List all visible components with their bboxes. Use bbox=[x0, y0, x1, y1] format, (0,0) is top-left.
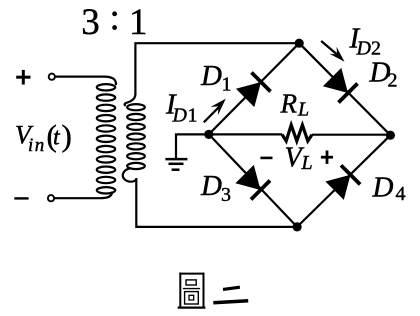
label D2 bbox=[369, 57, 398, 92]
wire - terminal to primary bottom bbox=[54, 192, 112, 199]
current arrow ID1 bbox=[204, 99, 226, 123]
svg-text:2: 2 bbox=[388, 69, 398, 91]
svg-text:3: 3 bbox=[221, 184, 231, 206]
label D1 bbox=[200, 60, 232, 96]
terminal + circle bbox=[49, 74, 55, 80]
label - VL + (load voltage) bbox=[260, 143, 333, 174]
wire secondary top to bridge top node bbox=[135, 43, 299, 95]
wire middle rail left (left node to resistor) bbox=[209, 133, 282, 135]
svg-text:): ) bbox=[62, 118, 72, 153]
wire + terminal to primary top bbox=[55, 77, 116, 85]
node bottom bbox=[293, 222, 302, 231]
caption figure two (Chinese) bbox=[178, 273, 249, 308]
svg-text:1: 1 bbox=[188, 104, 198, 126]
diode D2 (triangle and cathode bar) bbox=[323, 68, 358, 103]
node top bbox=[295, 39, 304, 48]
label + (input positive) bbox=[16, 70, 30, 85]
label D3 bbox=[200, 170, 231, 206]
wire bridge arm D2 (top node to right node) bbox=[299, 43, 390, 135]
resistor RL zigzag bbox=[282, 125, 312, 141]
svg-text:L: L bbox=[301, 152, 313, 174]
label D4 bbox=[372, 171, 406, 205]
svg-text:R: R bbox=[280, 89, 298, 119]
node right bbox=[386, 131, 395, 140]
label ID1 bbox=[165, 89, 198, 127]
wire bridge arm D3 (left node to bottom node) bbox=[209, 134, 297, 227]
svg-text:1: 1 bbox=[222, 74, 232, 96]
svg-text:D: D bbox=[372, 171, 394, 203]
wire left node to ground bbox=[176, 134, 209, 158]
圖 bbox=[178, 273, 206, 308]
label 3:1 turns ratio bbox=[81, 0, 147, 43]
svg-text::: : bbox=[109, 0, 119, 39]
wire secondary bottom to bridge bottom node bbox=[136, 178, 297, 227]
terminal - circle bbox=[48, 195, 54, 201]
svg-text:D: D bbox=[200, 170, 222, 202]
node left bbox=[204, 130, 213, 139]
inductor secondary winding bbox=[123, 94, 145, 182]
svg-text:2: 2 bbox=[371, 38, 381, 60]
label RL bbox=[280, 89, 310, 121]
二 bbox=[213, 287, 248, 303]
wire bridge arm D4 (bottom node to right node) bbox=[297, 135, 390, 227]
svg-text:L: L bbox=[297, 98, 309, 120]
svg-text:D: D bbox=[356, 38, 372, 60]
svg-text:1: 1 bbox=[129, 2, 148, 43]
diode D4 (triangle and cathode bar) bbox=[325, 165, 360, 200]
svg-text:D: D bbox=[172, 104, 188, 126]
wire middle rail right (resistor to right node) bbox=[312, 134, 390, 136]
diode D1 (triangle and cathode bar) bbox=[236, 73, 271, 108]
inductor primary winding bbox=[97, 84, 115, 193]
svg-text:4: 4 bbox=[396, 183, 406, 205]
label Vin(t) bbox=[15, 118, 72, 156]
label - (input negative) bbox=[14, 197, 28, 199]
svg-text:D: D bbox=[200, 60, 222, 92]
svg-text:3: 3 bbox=[81, 2, 100, 43]
ground symbol bbox=[165, 159, 187, 170]
diode D3 (triangle and cathode bar) bbox=[235, 165, 270, 200]
wire bridge arm D1 (left node to top node) bbox=[209, 43, 299, 134]
label ID2 bbox=[349, 22, 382, 59]
current arrow ID2 bbox=[321, 41, 344, 62]
svg-text:in: in bbox=[28, 135, 46, 156]
